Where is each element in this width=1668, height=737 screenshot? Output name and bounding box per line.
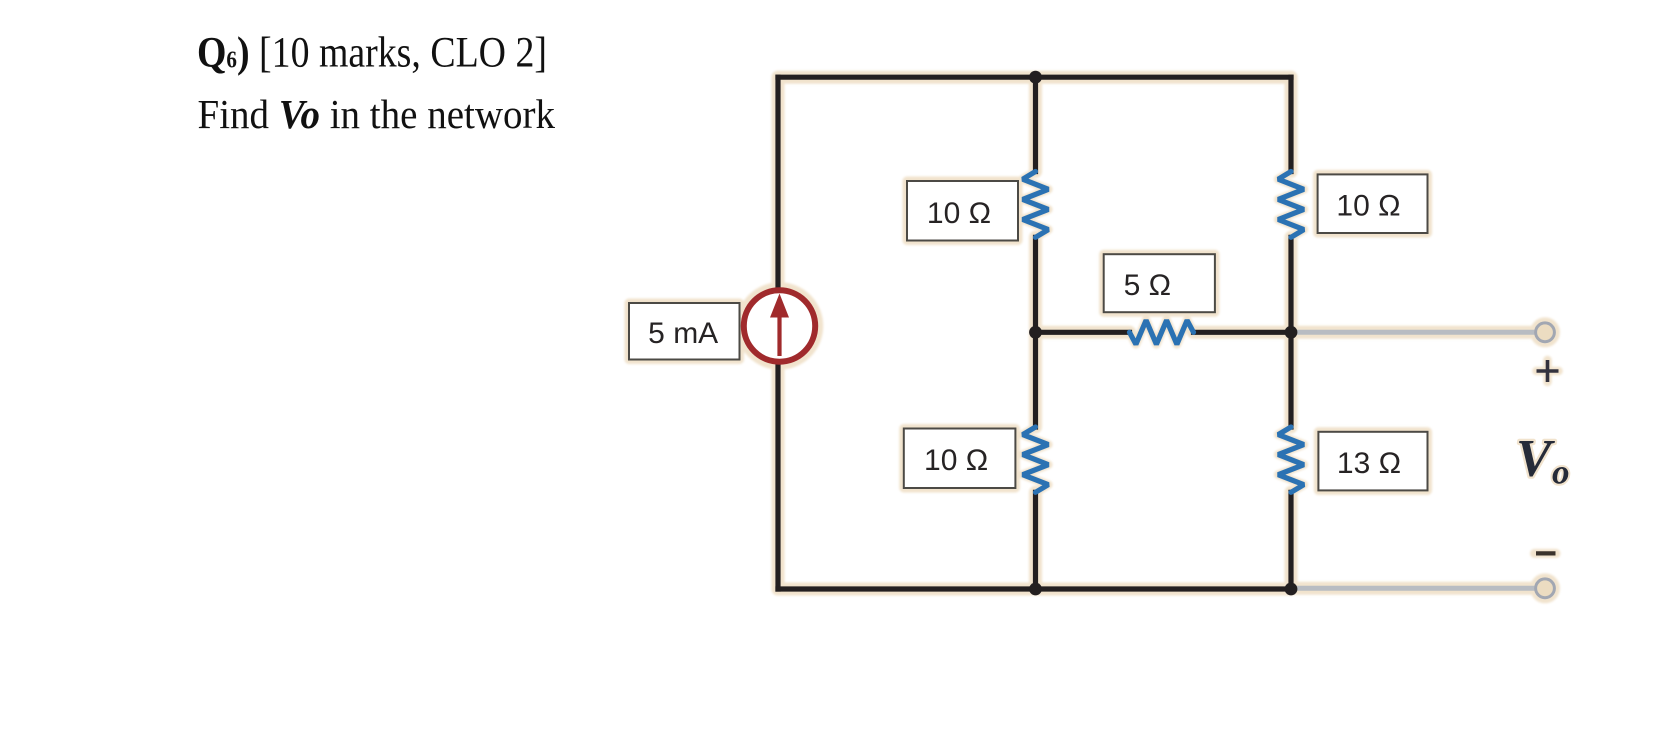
wire gray output bottom xyxy=(1293,586,1534,591)
label box 5 mA xyxy=(629,303,740,360)
svg-text:5 mA: 5 mA xyxy=(648,317,718,350)
wire right branch seg3 xyxy=(1288,492,1293,589)
wire left branch upper xyxy=(775,77,780,287)
minus sign xyxy=(1536,551,1556,555)
wire left branch lower xyxy=(775,365,780,589)
current source 5 mA circle xyxy=(744,290,815,361)
svg-text:5 Ω: 5 Ω xyxy=(1124,269,1171,302)
junction node middle-right xyxy=(1285,326,1298,339)
wire gray output top xyxy=(1293,330,1534,335)
junction node bottom-right xyxy=(1285,583,1298,596)
plus sign xyxy=(1537,360,1559,382)
wire middle rail right xyxy=(1194,330,1292,335)
resistor 10ohm bottom-middle zigzag xyxy=(1023,427,1049,492)
label box 5 ohm xyxy=(1104,254,1215,312)
resistor 5ohm zigzag xyxy=(1130,320,1194,344)
resistor 10ohm top-middle zigzag xyxy=(1023,172,1049,238)
label box 10 ohm bottom-middle xyxy=(904,429,1016,489)
wire right branch seg2 xyxy=(1288,237,1293,427)
wire middle branch seg3 xyxy=(1033,492,1038,589)
wire middle rail left xyxy=(1036,330,1130,335)
wire middle branch seg1 xyxy=(1033,77,1038,171)
wire right branch seg1 xyxy=(1288,77,1293,171)
resistor 13ohm zigzag xyxy=(1278,427,1304,492)
label box 13 ohm xyxy=(1318,432,1427,491)
terminal node top (output +) xyxy=(1536,323,1555,342)
svg-text:Q6) [10 marks, CLO 2]: Q6) [10 marks, CLO 2] xyxy=(197,30,547,77)
svg-text:13 Ω: 13 Ω xyxy=(1337,447,1401,480)
terminal node bottom (output -) xyxy=(1536,579,1555,598)
junction node top xyxy=(1029,71,1042,84)
svg-text:Find Vo in the network: Find Vo in the network xyxy=(198,91,556,137)
junction node bottom-middle xyxy=(1029,583,1042,596)
cream halo layer xyxy=(629,77,1559,598)
svg-text:10 Ω: 10 Ω xyxy=(927,197,991,230)
current source arrow xyxy=(770,294,789,357)
resistor 10ohm top-right zigzag xyxy=(1278,172,1304,238)
label box 10 ohm top-middle xyxy=(907,181,1018,241)
svg-text:o: o xyxy=(1552,453,1570,492)
wire top rail xyxy=(778,75,1291,80)
wire bottom rail xyxy=(778,586,1291,591)
svg-text:10 Ω: 10 Ω xyxy=(1336,190,1400,223)
wire middle branch seg2 xyxy=(1033,237,1038,427)
junction node middle-left xyxy=(1029,326,1042,339)
label box 10 ohm top-right xyxy=(1318,174,1428,233)
svg-text:10 Ω: 10 Ω xyxy=(924,444,988,477)
svg-text:V: V xyxy=(1516,430,1555,488)
